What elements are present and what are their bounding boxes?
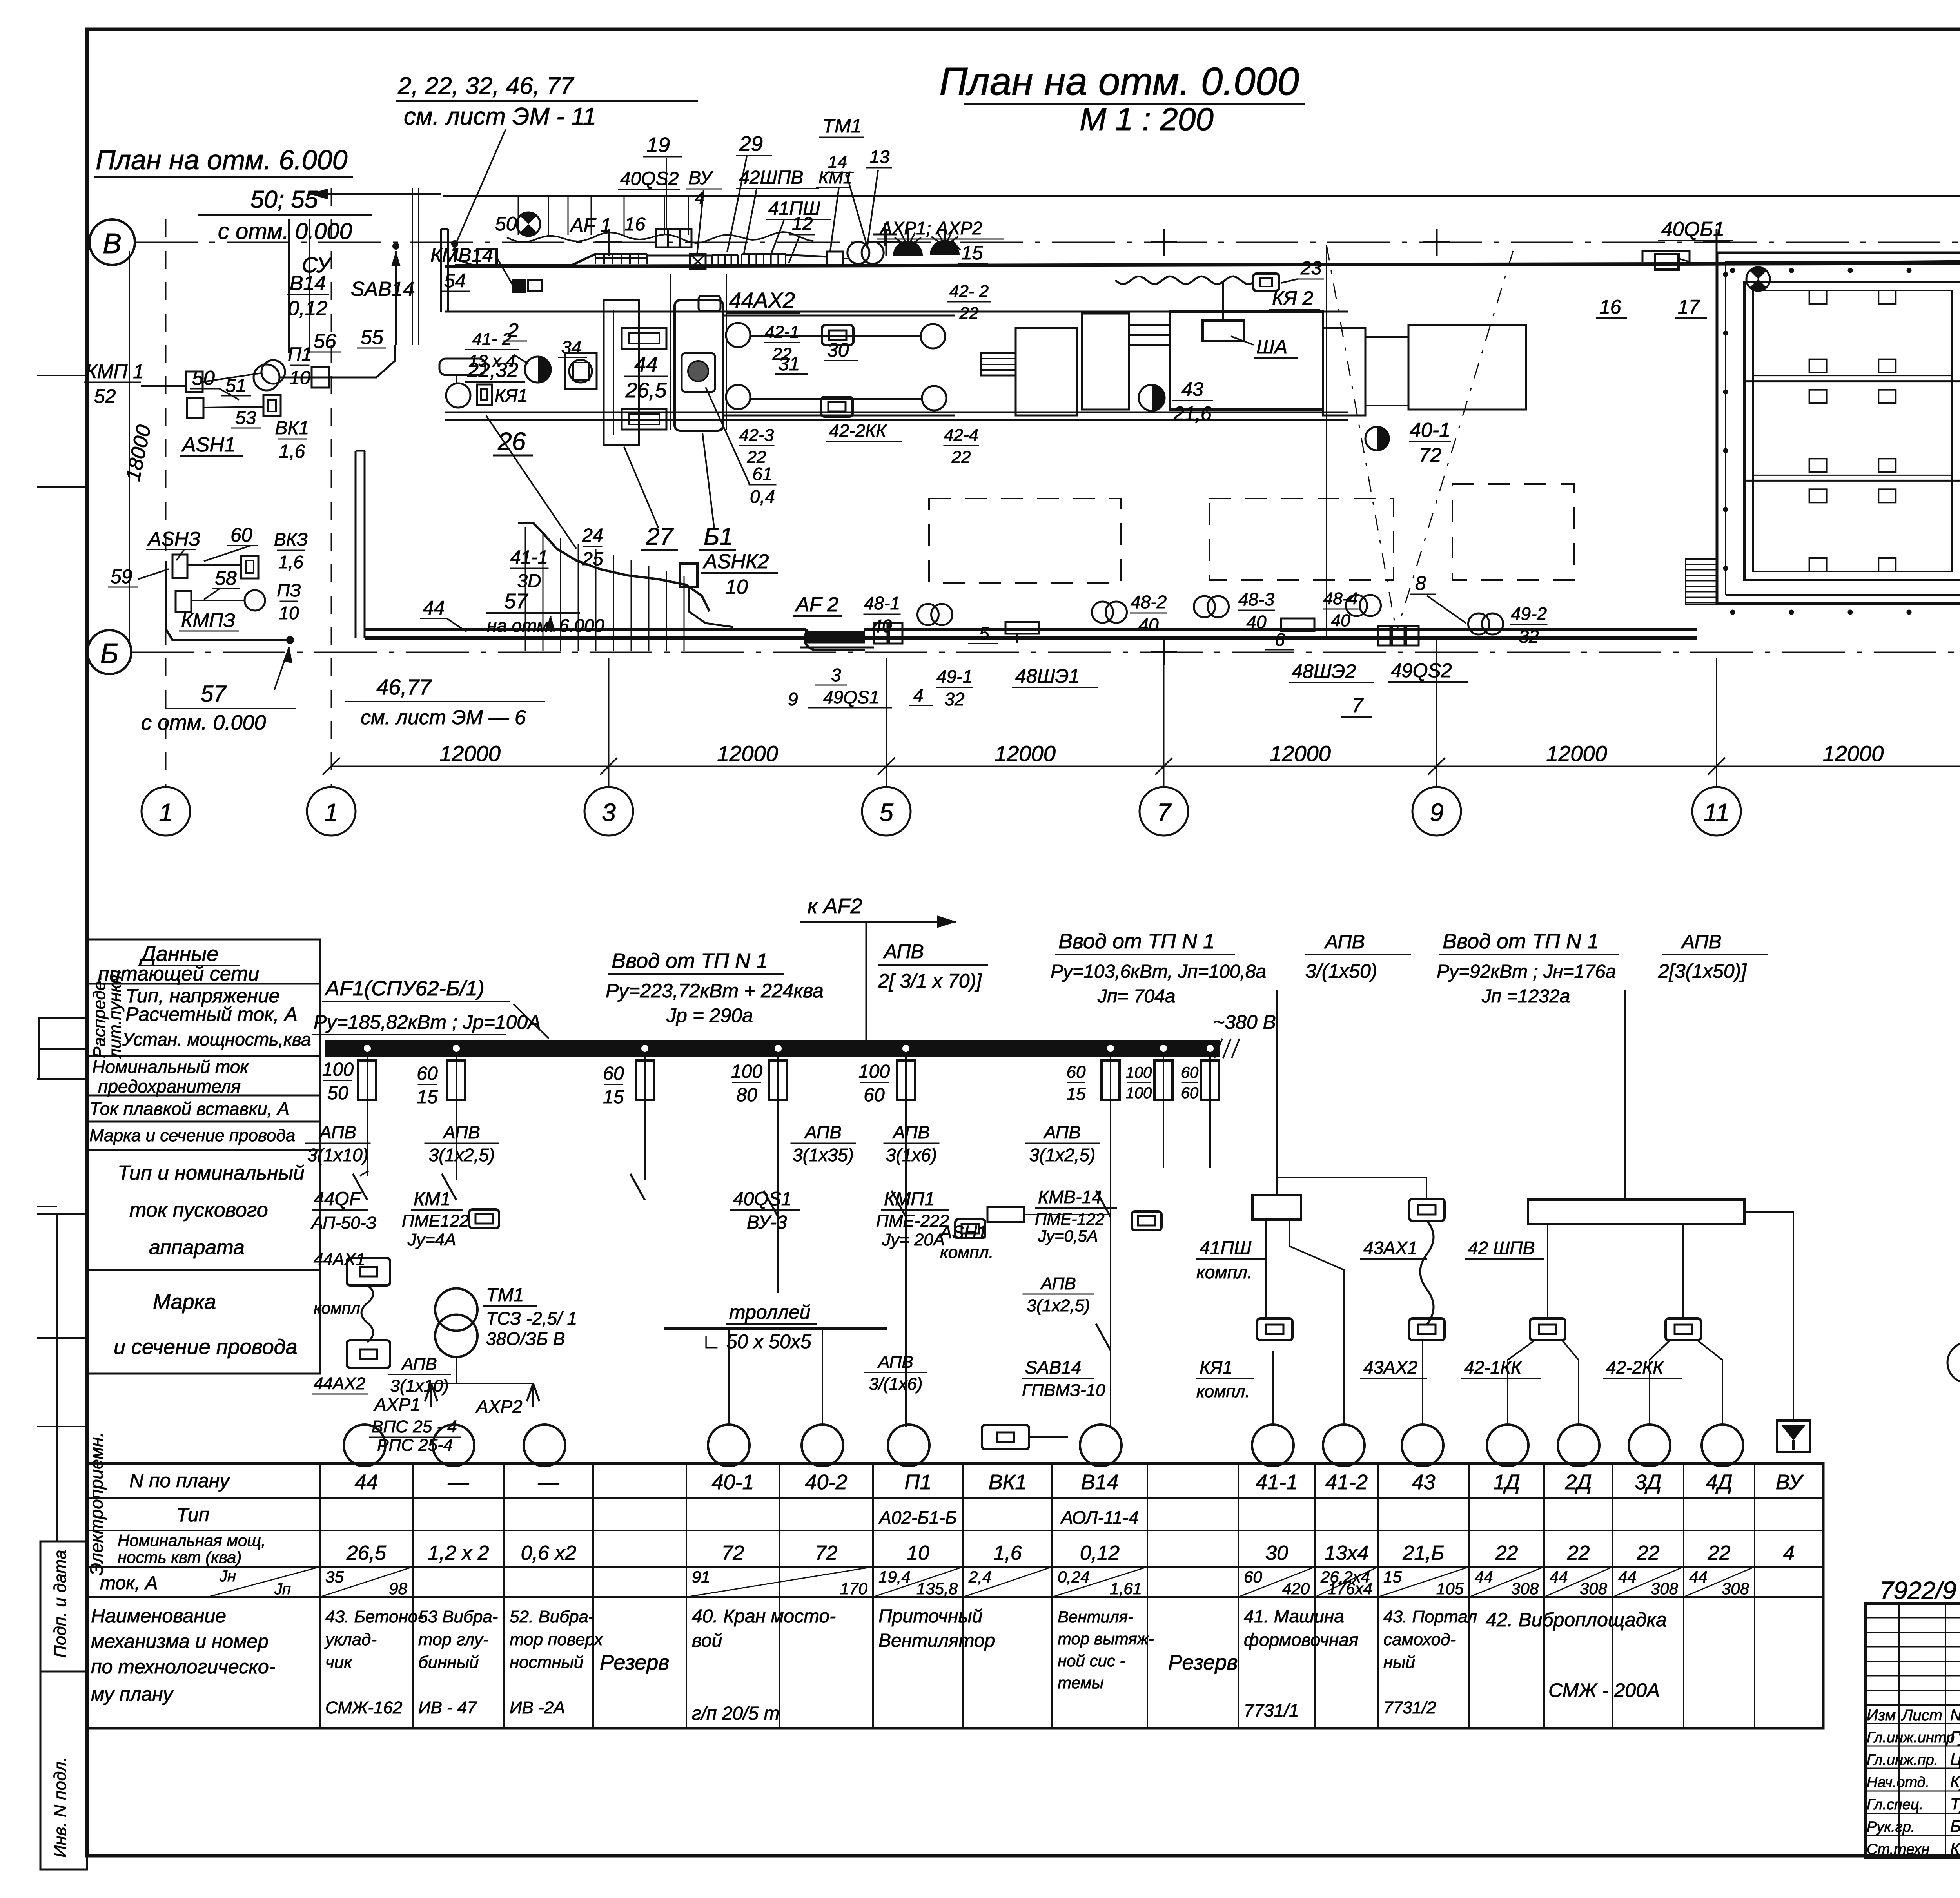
box KYA1 schematic [1196,1318,1292,1401]
svg-text:2,4: 2,4 [968,1568,991,1586]
equipment table [87,1463,1823,1728]
fuse ratings [322,1059,1198,1108]
svg-text:АF 2: АF 2 [795,593,838,616]
svg-text:предохранителя: предохранителя [98,1076,241,1097]
svg-text:48-3: 48-3 [1238,589,1274,609]
svg-text:Jу= 20А: Jу= 20А [882,1230,945,1249]
svg-text:троллей: троллей [729,1301,811,1323]
svg-text:N: докум.: N: докум. [1950,1707,1960,1724]
table row name texts [324,1606,1667,1724]
svg-text:27: 27 [646,523,674,550]
label 60 [204,524,258,561]
svg-text:тор глу-: тор глу- [418,1630,489,1649]
riser line 42ShPV [1624,990,1626,1200]
wire ShA drop [1115,276,1252,321]
svg-text:Колбасина: Колбасина [1950,1839,1960,1858]
svg-text:М 1 : 200: М 1 : 200 [1080,102,1214,137]
svg-text:КМПЗ: КМПЗ [181,609,235,631]
svg-text:План на отм. 0.000: План на отм. 0.000 [939,60,1299,103]
svg-text:11: 11 [1704,798,1730,827]
label APV 3x2,5 low [1023,1274,1094,1315]
motor half circle 41-2 [525,357,551,383]
svg-text:см. лист ЭМ - 11: см. лист ЭМ - 11 [404,103,596,130]
svg-text:Устан. мощность,ква: Устан. мощность,ква [122,1029,311,1050]
table row N values [354,1470,1804,1494]
label KMP3 [179,609,239,631]
label ASH1 [180,433,243,456]
svg-text:16: 16 [1599,296,1621,318]
axis B circle [87,630,131,674]
svg-text:40-1: 40-1 [711,1470,754,1494]
svg-text:30: 30 [827,339,849,361]
transformer 48-4 [1323,589,1381,630]
building room 1 [1744,282,1960,580]
svg-text:3(1х2,5): 3(1х2,5) [1029,1145,1096,1165]
svg-text:54: 54 [444,270,466,292]
svg-text:21,Б: 21,Б [1402,1542,1444,1564]
svg-text:Марка: Марка [153,1290,216,1314]
wire building top [1690,251,1960,263]
svg-text:Туркин: Туркин [1950,1795,1960,1813]
label 54 [441,270,470,292]
label 42-4 22 [944,426,979,467]
svg-text:КМВ-14: КМВ-14 [1038,1187,1102,1207]
wire 41PSh to KYA1 [1266,1220,1275,1424]
cable jog at 40QB1 [1642,251,1690,262]
svg-text:308: 308 [1511,1579,1539,1598]
svg-text:44АХ2: 44АХ2 [729,288,795,312]
label 43 21,6 [1172,378,1213,424]
svg-text:АОЛ-11-4: АОЛ-11-4 [1060,1507,1139,1528]
svg-text:43: 43 [1181,378,1203,400]
svg-text:к АF2: к АF2 [808,894,862,918]
box 5 [968,622,1039,644]
svg-text:5: 5 [979,623,989,644]
svg-text:КМП 1: КМП 1 [85,361,144,383]
svg-text:Jу=0,5А: Jу=0,5А [1038,1227,1098,1245]
cabinet AF1 grid box [656,229,691,247]
label V14 0,12 [287,272,329,320]
svg-text:Вентиля-: Вентиля- [1058,1608,1133,1626]
svg-text:44: 44 [423,597,445,619]
boxes 42-1KK 42-2KK schematic [1461,1318,1701,1378]
svg-text:40: 40 [1246,612,1267,632]
svg-text:42-2КК: 42-2КК [1606,1357,1664,1378]
svg-text:100: 100 [858,1061,890,1082]
axis V circle [89,219,135,265]
axis B chain line [131,652,1960,653]
svg-text:19: 19 [646,133,670,157]
svg-text:ностный: ностный [510,1653,583,1672]
thermal 42-2KK box [821,397,853,417]
lamp P3 circle [245,590,265,611]
svg-text:В14: В14 [1081,1470,1118,1494]
svg-text:3Д: 3Д [1635,1470,1661,1494]
svg-text:ный: ный [1383,1653,1415,1672]
svg-text:механизма и номер: механизма и номер [91,1630,269,1652]
wire 41PSh to 41-2 [1290,1220,1344,1424]
label 34 [558,337,587,357]
svg-text:АПВ: АПВ [877,1352,913,1372]
machine 43 right part [1323,328,1408,415]
svg-text:57: 57 [504,589,528,613]
wire 43AX2 drop [1423,1340,1427,1424]
svg-text:308: 308 [1651,1579,1679,1598]
svg-text:Тип и номинальный: Тип и номинальный [118,1162,305,1184]
left margin boxes [37,375,88,1869]
svg-text:ТМ1: ТМ1 [486,1285,524,1305]
svg-text:АПВ: АПВ [1324,931,1365,953]
label ASHK2 10 [701,550,778,598]
label 42-2 22 top [947,282,991,323]
svg-text:22: 22 [959,304,979,323]
device VU symbol [1777,1421,1810,1452]
svg-text:Номинальная мощ,: Номинальная мощ, [118,1531,266,1550]
svg-text:55: 55 [361,326,384,349]
label 57 at 6.000 [486,589,604,636]
bus 42ShPV box [1528,1200,1744,1224]
svg-text:г/п 20/5 т: г/п 20/5 т [692,1703,780,1724]
building outer wall [1717,253,1960,604]
svg-text:Вентилятор: Вентилятор [878,1630,995,1651]
svg-text:41- 2: 41- 2 [472,330,512,349]
label 24 25 [486,415,603,569]
svg-text:170: 170 [840,1579,868,1598]
svg-text:Инв. N подл.: Инв. N подл. [51,1757,70,1858]
svg-text:N по плану: N по плану [129,1470,230,1492]
svg-text:49-2: 49-2 [1511,604,1547,624]
svg-text:SAB14: SAB14 [351,278,414,301]
svg-text:Подп. и дата: Подп. и дата [51,1550,70,1658]
svg-text:1,6: 1,6 [279,441,305,462]
label KMP1 52 [84,361,144,407]
busbar 380V [325,1011,1276,1058]
label K AF2 arrow [800,894,956,1042]
lower band wall left [356,451,365,638]
svg-text:9: 9 [788,689,798,709]
svg-text:59: 59 [111,566,132,587]
svg-text:22: 22 [951,448,971,467]
main title Plan at 0.000 [939,60,1305,137]
label 57 from 0.000 [141,647,296,734]
svg-text:14: 14 [828,152,847,172]
svg-text:40-1: 40-1 [1410,419,1450,442]
svg-text:В: В [103,228,122,259]
svg-text:57: 57 [201,681,227,707]
svg-text:26: 26 [497,427,526,455]
svg-text:3D: 3D [517,571,541,591]
label 44 26,5 [624,353,668,402]
table row current values [320,1567,1755,1598]
svg-text:лит.пункт: лит.пункт [105,970,125,1059]
svg-text:КЯ1: КЯ1 [495,385,528,406]
svg-text:аппарата: аппарата [149,1236,245,1259]
svg-text:43. Портал: 43. Портал [1383,1607,1477,1626]
svg-text:СМЖ - 200А: СМЖ - 200А [1548,1679,1660,1701]
label 42-2KK [826,421,902,441]
svg-text:56: 56 [314,330,336,353]
machine 42 frame [723,315,955,415]
svg-text:Ру=103,6кВт, Jп=100,8а: Ру=103,6кВт, Jп=100,8а [1051,961,1266,982]
dashed zone 2 [1209,499,1394,580]
column axis lines [609,638,1960,787]
svg-text:Царев: Царев [1950,1750,1960,1768]
svg-text:Ввод от ТП N 1: Ввод от ТП N 1 [1058,930,1215,953]
svg-text:0,6 х2: 0,6 х2 [521,1542,577,1564]
svg-text:Данные: Данные [139,942,218,966]
label 42-1 22 [764,323,800,364]
label 41PSh kompl [1196,1238,1266,1282]
X-in-box symbol [690,254,706,269]
svg-text:Jп =1232а: Jп =1232а [1481,986,1570,1007]
svg-text:Нач.отд.: Нач.отд. [1867,1774,1929,1791]
label vvod TP1 second [1051,930,1266,1007]
label 50 [190,367,239,400]
title block header cells [1867,1707,1960,1724]
svg-text:135,8: 135,8 [916,1579,958,1598]
staff signatures [1867,1728,1960,1858]
breaker 44QF symbol [353,1171,368,1200]
svg-text:∟ 50 х 50х5: ∟ 50 х 50х5 [702,1331,811,1352]
svg-text:60: 60 [864,1085,885,1106]
leader lines from labels [666,156,960,263]
svg-text:Jп: Jп [274,1581,291,1598]
svg-text:42-2КК: 42-2КК [829,421,887,441]
title block frame [1865,1603,1960,1858]
svg-text:Номинальный ток: Номинальный ток [92,1057,249,1077]
band left wall [441,229,448,312]
label 56 [310,330,341,353]
label 41-2 13x4 [465,330,529,371]
label 49QS2 [1388,660,1468,682]
thermal 42-1KK box [822,325,853,345]
svg-text:17: 17 [1678,296,1700,318]
label KYA2 [1269,287,1320,310]
machine 42 right body [1016,328,1077,415]
svg-text:самоход-: самоход- [1383,1630,1456,1649]
svg-text:АSН1: АSН1 [939,1222,987,1242]
svg-text:2[3(1х50)]: 2[3(1х50)] [1658,960,1747,982]
svg-text:—: — [448,1470,470,1494]
svg-text:52. Вибра-: 52. Вибра- [510,1607,594,1626]
svg-text:3(1х35): 3(1х35) [793,1145,854,1165]
svg-text:40: 40 [872,616,892,636]
svg-text:80: 80 [736,1085,757,1106]
svg-text:АПВ: АПВ [318,1122,356,1142]
svg-text:40. Кран мосто-: 40. Кран мосто- [692,1606,836,1627]
svg-text:42-1КК: 42-1КК [1464,1357,1523,1378]
svg-text:АХР1: АХР1 [373,1394,421,1415]
svg-text:вой: вой [692,1630,722,1651]
svg-text:22: 22 [1567,1542,1590,1564]
label APV 3x6 low [864,1352,927,1394]
switch SA circle [254,364,279,390]
svg-text:Jр = 290а: Jр = 290а [666,1004,753,1026]
machine row top line [445,311,1348,313]
svg-text:3(1х6): 3(1х6) [886,1145,937,1165]
svg-text:ПЗ: ПЗ [277,580,301,600]
label 51 [221,375,251,396]
dashed column line 1b [331,188,332,787]
label 48ShE2 [1289,660,1374,683]
svg-text:12000: 12000 [995,741,1056,766]
svg-text:91: 91 [692,1568,710,1586]
svg-text:44: 44 [634,353,658,376]
cabinet VU top box [699,296,720,311]
svg-text:44QF: 44QF [314,1189,362,1209]
dimension line 12000 row [323,741,1960,775]
svg-text:42. Виброплощадка: 42. Виброплощадка [1486,1609,1667,1631]
svg-text:АSН1: АSН1 [181,433,236,456]
box 44AX1 schematic [314,1250,390,1342]
label ASH3 [146,528,201,560]
svg-text:—: — [538,1470,560,1494]
comb symbol 3 [742,254,786,264]
svg-text:Тип: Тип [176,1504,209,1526]
svg-text:3/(1х6): 3/(1х6) [869,1374,923,1394]
svg-text:60: 60 [1067,1062,1086,1082]
svg-text:А02-Б1-Б: А02-Б1-Б [878,1507,957,1528]
svg-text:32: 32 [1519,626,1539,647]
label KMB14 [430,244,493,266]
label KMV-14 [1035,1187,1161,1245]
label AF1 SPU62 [312,977,549,1039]
svg-text:72: 72 [1419,444,1441,467]
wire mini plan upper [279,345,395,377]
svg-text:1,6: 1,6 [993,1542,1022,1564]
svg-text:ПМЕ-122: ПМЕ-122 [1035,1210,1105,1228]
switch 40QS1 symbol [764,1191,778,1217]
svg-text:3: 3 [831,665,841,685]
roller 42-3 circle [726,385,750,409]
label 42-3 22 [739,426,775,467]
svg-text:3(1х10): 3(1х10) [390,1376,448,1396]
svg-text:40QS2: 40QS2 [620,169,679,189]
svg-text:АF1(СПУ62-Б/1): АF1(СПУ62-Б/1) [324,977,485,1000]
svg-text:1: 1 [324,798,338,827]
svg-text:3(1х2,5): 3(1х2,5) [429,1145,495,1165]
svg-text:ВУ-3: ВУ-3 [747,1212,787,1233]
switch SAB14 schematic [1022,1324,1111,1400]
svg-text:51: 51 [225,375,246,396]
svg-text:ША: ША [1256,336,1287,358]
machine 43 far right [1408,325,1526,410]
cabinet VU inner cell [682,353,715,392]
svg-text:44: 44 [1550,1568,1568,1586]
svg-text:53: 53 [235,408,256,428]
svg-text:23: 23 [1300,258,1322,279]
label 58 [204,567,240,600]
label 26 [493,427,533,455]
svg-text:Гл.инж.интр: Гл.инж.интр [1867,1729,1955,1746]
svg-text:60: 60 [417,1063,438,1084]
top cable line 48 [443,195,1960,197]
svg-text:46,77: 46,77 [376,674,432,699]
trolley bar [664,1301,887,1352]
svg-text:29: 29 [739,132,763,156]
wire ASHK2 drop [689,587,733,627]
svg-text:44: 44 [1475,1568,1493,1586]
grid circles [142,787,1960,836]
svg-text:СМЖ-162: СМЖ-162 [325,1698,402,1717]
svg-text:12000: 12000 [439,741,501,766]
switch VK3 box [241,556,258,578]
switch tick feeder3 [630,1174,645,1200]
label vvod TP1 main [606,949,824,1026]
svg-text:Гузенко: Гузенко [1950,1728,1960,1746]
svg-text:Гл.спец.: Гл.спец. [1867,1796,1923,1813]
svg-text:ВКЗ: ВКЗ [274,529,308,549]
svg-text:ной сис -: ной сис - [1058,1651,1125,1670]
svg-text:и сечение провода: и сечение провода [114,1335,298,1359]
svg-text:43: 43 [1412,1470,1435,1494]
label 23 [1281,258,1324,283]
wires KK to motors [1508,1340,1722,1424]
svg-text:Рук.гр.: Рук.гр. [1867,1819,1915,1835]
svg-text:48ШЭ2: 48ШЭ2 [1292,660,1356,682]
transformer 48-3 [1194,589,1275,632]
svg-text:48-2: 48-2 [1131,592,1167,612]
label 27 [624,447,678,550]
svg-text:72: 72 [815,1542,838,1564]
svg-text:100: 100 [1126,1084,1152,1102]
svg-text:Ру=92кВт ; Jн=176а: Ру=92кВт ; Jн=176а [1437,961,1616,982]
svg-text:АХР1; АХР2: АХР1; АХР2 [879,218,982,238]
transformer TM1 schematic [435,1285,577,1357]
svg-text:на отм. 6.000: на отм. 6.000 [487,615,604,636]
svg-text:60: 60 [603,1063,624,1084]
svg-text:АХР2: АХР2 [475,1396,523,1417]
svg-text:100: 100 [731,1061,762,1082]
dash diag 1 [1327,245,1396,627]
label APV 2x70 [878,941,988,992]
device AF2 [793,593,874,650]
svg-text:48-1: 48-1 [864,593,900,613]
mold brick 2 [622,409,666,430]
svg-text:4Д: 4Д [1706,1470,1732,1494]
band top wall thick [445,262,1960,266]
svg-text:10: 10 [289,368,310,388]
svg-text:П1: П1 [904,1470,931,1494]
svg-text:16: 16 [624,214,646,235]
svg-text:12000: 12000 [1823,741,1884,766]
dashed zone 3 [1452,484,1574,580]
svg-text:308: 308 [1580,1579,1608,1598]
svg-text:ТМ1: ТМ1 [822,115,862,137]
svg-text:30: 30 [1265,1542,1288,1564]
svg-text:10: 10 [725,576,748,598]
svg-text:44АХ2: 44АХ2 [314,1374,365,1393]
svg-text:Расчетный ток, А: Расчетный ток, А [125,1003,298,1025]
lamp 50 crossed circle [495,212,540,236]
label VK1 1,6 [275,418,309,462]
roller 42-2 circle [921,324,945,348]
lamp crossed circle right [1746,267,1770,291]
machine 43 left part [1082,314,1170,410]
svg-text:10: 10 [279,603,299,623]
svg-text:41-2: 41-2 [1325,1470,1368,1494]
svg-text:40: 40 [1331,611,1350,630]
svg-text:40-2: 40-2 [805,1470,847,1494]
svg-text:50: 50 [327,1083,348,1104]
svg-text:49QS1: 49QS1 [823,687,879,707]
axis cross ticks on B line [1151,639,1960,665]
svg-text:РПС 25-4: РПС 25-4 [377,1436,453,1455]
svg-text:42-3: 42-3 [739,426,774,445]
axis cross ticks on V line [595,229,1960,256]
label 31 [775,353,808,375]
device VK1 symbol [982,1425,1068,1449]
